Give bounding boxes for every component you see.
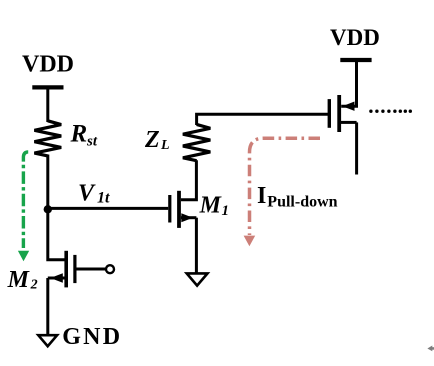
right PMOS drain lead: [341, 121, 357, 124]
svg-text:M: M: [7, 267, 31, 293]
svg-text:1t: 1t: [97, 189, 110, 206]
svg-text:I: I: [257, 183, 266, 209]
label M_1: [199, 192, 229, 218]
gray cursor arrow artifact (bottom right): [427, 346, 434, 352]
M1 source lead: [181, 216, 197, 219]
M1 source arrow: [181, 213, 193, 222]
label Z_L: [144, 127, 170, 153]
label V_1t: [78, 180, 110, 206]
wire node to M1 gate: [48, 207, 168, 210]
svg-text:2: 2: [30, 278, 38, 293]
svg-text:Z: Z: [144, 127, 160, 153]
svg-text:VDD: VDD: [330, 25, 380, 50]
M2 source lead: [48, 277, 65, 280]
transistor M1: [170, 191, 197, 228]
right PMOS gate bar: [328, 99, 331, 128]
wire R_st to node, node to M2 drain: [48, 155, 65, 260]
svg-text:R: R: [70, 121, 88, 148]
wire Z_L top to right transistor gate: [197, 114, 329, 125]
wire M1 source to ground: [195, 218, 198, 274]
right PMOS source arrow: [342, 102, 354, 111]
wire Z_L bottom to M1 drain: [181, 160, 197, 200]
transistor (right PMOS pull-up): [329, 95, 356, 132]
svg-text:1: 1: [222, 203, 230, 219]
ground symbol GND (left): [38, 335, 57, 346]
M2 source arrow: [50, 273, 63, 283]
wire VDD rail to R_st: [46, 87, 49, 122]
green feedback arrow (dash-dot): [18, 152, 29, 261]
M2 gate bar: [73, 255, 76, 283]
svg-text:L: L: [160, 138, 170, 153]
transistor M2: [48, 251, 106, 288]
right PMOS channel bar: [337, 95, 341, 132]
VDD rail bar (left): [32, 85, 63, 89]
M2 channel bar: [64, 251, 68, 288]
dots (continuation): [369, 110, 412, 113]
pink I_pull-down arrow (dash-dot): [244, 138, 320, 246]
svg-text:V: V: [78, 180, 96, 206]
svg-text:VDD: VDD: [22, 52, 74, 78]
M2 gate lead: [76, 268, 106, 271]
svg-text:GND: GND: [62, 324, 122, 350]
M2 gate terminal circle: [106, 265, 114, 273]
wire M2 source to GND: [46, 278, 49, 335]
label I_Pull-down: [257, 183, 338, 210]
M1 gate bar: [168, 195, 171, 223]
svg-text:Pull-down: Pull-down: [267, 193, 337, 210]
label R_st: [70, 121, 98, 150]
svg-text:M: M: [199, 192, 223, 218]
resistor Z_L: [183, 124, 210, 160]
wire VDD rail to right transistor source: [341, 60, 356, 106]
VDD rail bar (right): [340, 58, 371, 62]
ground symbol (M1 source): [187, 273, 208, 285]
svg-text:st: st: [86, 134, 98, 150]
M1 channel bar: [177, 191, 181, 228]
label M_2: [7, 267, 38, 293]
wire right transistor drain (dangling): [355, 122, 358, 174]
resistor R_st: [34, 121, 61, 156]
node V_1t junction dot: [44, 205, 52, 213]
